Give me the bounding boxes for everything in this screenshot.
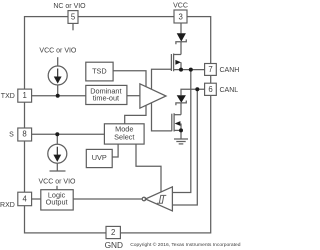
svg-text:Output: Output <box>46 198 68 207</box>
svg-text:TSD: TSD <box>92 66 107 75</box>
svg-text:TXD: TXD <box>1 93 15 100</box>
svg-text:3: 3 <box>179 12 183 21</box>
svg-text:Copyright © 2016, Texas Instru: Copyright © 2016, Texas Instruments Inco… <box>130 241 241 248</box>
svg-text:4: 4 <box>23 195 28 204</box>
svg-text:5: 5 <box>71 13 76 22</box>
svg-text:time-out: time-out <box>93 93 119 102</box>
svg-text:Select: Select <box>114 133 134 142</box>
svg-text:VCC or VIO: VCC or VIO <box>39 47 77 54</box>
svg-text:VCC: VCC <box>173 3 188 10</box>
svg-text:NC or VIO: NC or VIO <box>53 3 86 10</box>
svg-text:6: 6 <box>208 85 212 94</box>
svg-text:7: 7 <box>208 65 212 74</box>
svg-text:VCC or VIO: VCC or VIO <box>39 179 77 186</box>
svg-text:1: 1 <box>23 91 27 100</box>
svg-text:8: 8 <box>22 130 26 139</box>
svg-text:RXD: RXD <box>0 202 15 209</box>
svg-text:S: S <box>9 132 14 139</box>
svg-text:CANL: CANL <box>220 87 239 94</box>
svg-text:CANH: CANH <box>220 67 240 74</box>
svg-text:UVP: UVP <box>92 153 107 162</box>
svg-text:GND: GND <box>105 240 123 250</box>
svg-text:2: 2 <box>111 228 115 237</box>
